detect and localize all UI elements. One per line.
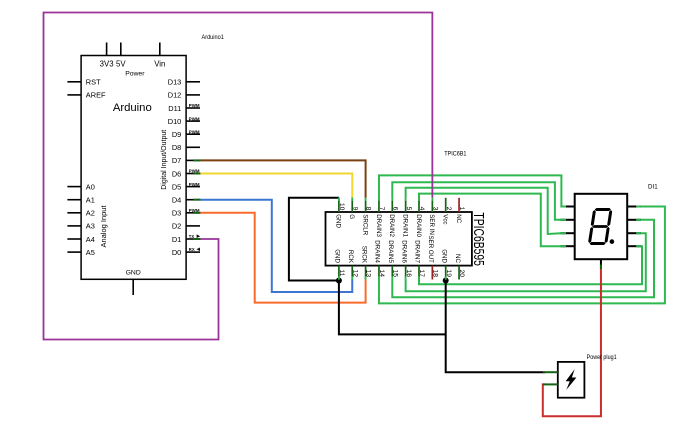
Arduino Arduino1 body xyxy=(81,56,186,280)
wire display right pin 4 to DRAIN7 (green) xyxy=(419,246,642,284)
svg-text:GND: GND xyxy=(334,249,341,263)
svg-text:2: 2 xyxy=(445,207,452,211)
display right pins xyxy=(627,207,641,247)
power plug Power plug1 body xyxy=(558,362,585,398)
7-segment digit 8 xyxy=(588,208,613,245)
pin 5V xyxy=(120,43,122,56)
svg-text:5: 5 xyxy=(405,207,412,211)
lightning bolt icon xyxy=(566,369,577,390)
svg-text:A0: A0 xyxy=(86,182,95,191)
digital pin labels xyxy=(168,78,182,257)
analog pin labels xyxy=(86,182,95,257)
chip top pin numbers xyxy=(338,203,465,211)
svg-text:A5: A5 xyxy=(86,248,95,257)
display bottom pin xyxy=(600,259,602,268)
wire D6 to G (yellow) xyxy=(200,174,352,198)
svg-text:11: 11 xyxy=(338,270,345,277)
svg-text:A2: A2 xyxy=(86,209,95,218)
svg-text:SRCK: SRCK xyxy=(360,246,367,264)
svg-text:9: 9 xyxy=(351,207,358,211)
svg-text:RST: RST xyxy=(86,78,101,87)
svg-text:5V: 5V xyxy=(116,60,126,69)
wire pin11 GND down to junction rail (black) xyxy=(339,281,446,335)
green tip bottom pin xyxy=(600,265,602,270)
svg-text:GND: GND xyxy=(440,249,447,263)
svg-text:DRAIN5: DRAIN5 xyxy=(387,240,394,263)
svg-text:D1: D1 xyxy=(172,235,181,244)
wire DRAIN0 to display left pin 4 (green) xyxy=(419,194,566,247)
svg-text:14: 14 xyxy=(378,270,385,278)
svg-text:A1: A1 xyxy=(86,196,95,205)
svg-text:NC: NC xyxy=(455,214,462,223)
svg-text:10: 10 xyxy=(338,203,345,211)
pin AREF xyxy=(67,94,81,96)
svg-text:DRAIN3: DRAIN3 xyxy=(375,214,382,237)
wire GND pin10 loop to pin11 (black) xyxy=(289,198,339,281)
svg-text:NC: NC xyxy=(454,254,461,263)
decimal point xyxy=(610,239,615,244)
svg-text:AREF: AREF xyxy=(86,91,106,100)
svg-text:3V3: 3V3 xyxy=(100,60,114,69)
svg-text:D11: D11 xyxy=(168,104,181,113)
svg-text:PWM: PWM xyxy=(189,129,200,134)
display left pins xyxy=(561,207,575,247)
svg-text:19: 19 xyxy=(445,270,452,278)
wire DRAIN1 to display left pin 3 (green) xyxy=(406,188,566,234)
wire D3 to SRCK (orange) xyxy=(200,213,366,303)
svg-text:SER IN: SER IN xyxy=(428,214,435,235)
bright green tips chip bottom pins xyxy=(339,276,446,279)
svg-text:D7: D7 xyxy=(172,156,181,165)
wire DRAIN3 to display left pin 1 (green) xyxy=(379,175,566,206)
svg-text:3: 3 xyxy=(431,207,438,211)
green connection tips on Arduino pins xyxy=(193,160,200,239)
svg-text:D13: D13 xyxy=(168,78,182,87)
pin Vin xyxy=(159,43,161,56)
svg-text:D9: D9 xyxy=(172,130,181,139)
svg-text:16: 16 xyxy=(405,270,412,278)
svg-text:PWM: PWM xyxy=(189,116,200,121)
power plug pin 2 xyxy=(543,383,558,385)
svg-text:17: 17 xyxy=(418,270,425,278)
junction node pin11 xyxy=(336,278,342,284)
shift register TPIC6B595 body xyxy=(326,212,472,266)
svg-text:PWM: PWM xyxy=(189,182,200,187)
wire display common to power plug (red) xyxy=(543,269,601,417)
svg-text:D10: D10 xyxy=(168,117,182,126)
svg-text:TPIC6B1: TPIC6B1 xyxy=(444,152,467,158)
7-segment display DI1 body xyxy=(575,194,628,259)
svg-text:Arduino: Arduino xyxy=(113,102,152,114)
svg-text:D8: D8 xyxy=(172,143,181,152)
wire display right pin 3 to DRAIN6 (green) xyxy=(406,233,646,291)
svg-text:D3: D3 xyxy=(172,209,181,218)
svg-text:D4: D4 xyxy=(172,196,181,205)
svg-text:D0: D0 xyxy=(172,248,181,257)
svg-text:TPIC6B595: TPIC6B595 xyxy=(470,212,487,266)
junction node pin19 xyxy=(443,278,449,284)
Arduino GND pin xyxy=(132,279,134,295)
svg-text:8: 8 xyxy=(365,207,372,211)
svg-text:DI1: DI1 xyxy=(648,184,658,191)
power pin labels xyxy=(100,60,166,69)
svg-text:GND: GND xyxy=(126,269,141,276)
svg-text:Digital Input/Output: Digital Input/Output xyxy=(161,130,168,190)
pin 3V3 xyxy=(106,43,108,56)
wire display right pin 2 to DRAIN5 (green) xyxy=(392,220,654,297)
svg-text:SRCLR: SRCLR xyxy=(361,214,368,236)
chip bottom pins 11..20 xyxy=(339,266,459,280)
wire D7 to SRCLR (brown) xyxy=(200,160,366,197)
display green tips xyxy=(561,207,641,247)
svg-text:A3: A3 xyxy=(86,222,95,231)
svg-text:12: 12 xyxy=(351,270,358,278)
digital pins D13-D0 xyxy=(186,82,200,252)
svg-text:Vcc: Vcc xyxy=(442,214,449,224)
chip bottom pin numbers xyxy=(338,270,465,278)
wire DRAIN2 to display left pin 2 (green) xyxy=(392,182,566,220)
svg-text:G: G xyxy=(348,214,355,219)
pin RST xyxy=(67,81,81,83)
analog pins A0-A5 xyxy=(67,187,81,253)
svg-text:D6: D6 xyxy=(172,169,181,178)
svg-text:DRAIN7: DRAIN7 xyxy=(414,240,421,263)
chip top pin labels xyxy=(335,214,462,237)
svg-text:RCK: RCK xyxy=(347,250,354,264)
svg-text:D5: D5 xyxy=(172,182,181,191)
svg-text:A4: A4 xyxy=(86,235,95,244)
svg-text:DRAIN4: DRAIN4 xyxy=(374,240,381,263)
bright green tips chip top pins xyxy=(339,198,432,201)
wire pin19 GND to power plug (black) xyxy=(446,281,545,373)
svg-text:DRAIN1: DRAIN1 xyxy=(401,214,408,237)
PWM markers xyxy=(189,103,200,213)
svg-text:DRAIN0: DRAIN0 xyxy=(415,214,422,237)
svg-text:Vin: Vin xyxy=(154,60,165,69)
svg-text:15: 15 xyxy=(391,270,398,278)
power plug pin 1 xyxy=(543,371,558,373)
left pin labels RST AREF xyxy=(86,78,106,100)
chip top pins 10..1 xyxy=(339,198,459,212)
svg-text:D2: D2 xyxy=(172,222,181,231)
svg-text:6: 6 xyxy=(391,207,398,211)
svg-text:SER OUT: SER OUT xyxy=(427,235,434,263)
svg-text:18: 18 xyxy=(431,270,438,278)
svg-text:4: 4 xyxy=(418,207,425,211)
svg-text:D12: D12 xyxy=(168,91,182,100)
svg-text:DRAIN6: DRAIN6 xyxy=(400,240,407,263)
svg-text:PWM: PWM xyxy=(189,103,200,108)
svg-text:GND: GND xyxy=(335,214,342,228)
wire display right pin 1 to DRAIN4 (green) xyxy=(379,207,665,304)
svg-text:RX: RX xyxy=(189,247,195,252)
chip bottom pin labels xyxy=(334,235,461,263)
svg-text:13: 13 xyxy=(365,270,372,278)
svg-text:Arduino1: Arduino1 xyxy=(202,35,225,41)
svg-text:Power: Power xyxy=(125,70,145,77)
svg-text:Analog Input: Analog Input xyxy=(101,205,108,247)
wire D4 to RCK (blue) xyxy=(200,200,352,292)
svg-text:20: 20 xyxy=(458,270,465,278)
svg-text:1: 1 xyxy=(458,207,465,211)
svg-text:DRAIN2: DRAIN2 xyxy=(388,214,395,237)
svg-text:Power plug1: Power plug1 xyxy=(587,355,618,361)
svg-text:7: 7 xyxy=(378,207,385,211)
wire D1 TX to SER IN (purple) xyxy=(44,13,433,340)
